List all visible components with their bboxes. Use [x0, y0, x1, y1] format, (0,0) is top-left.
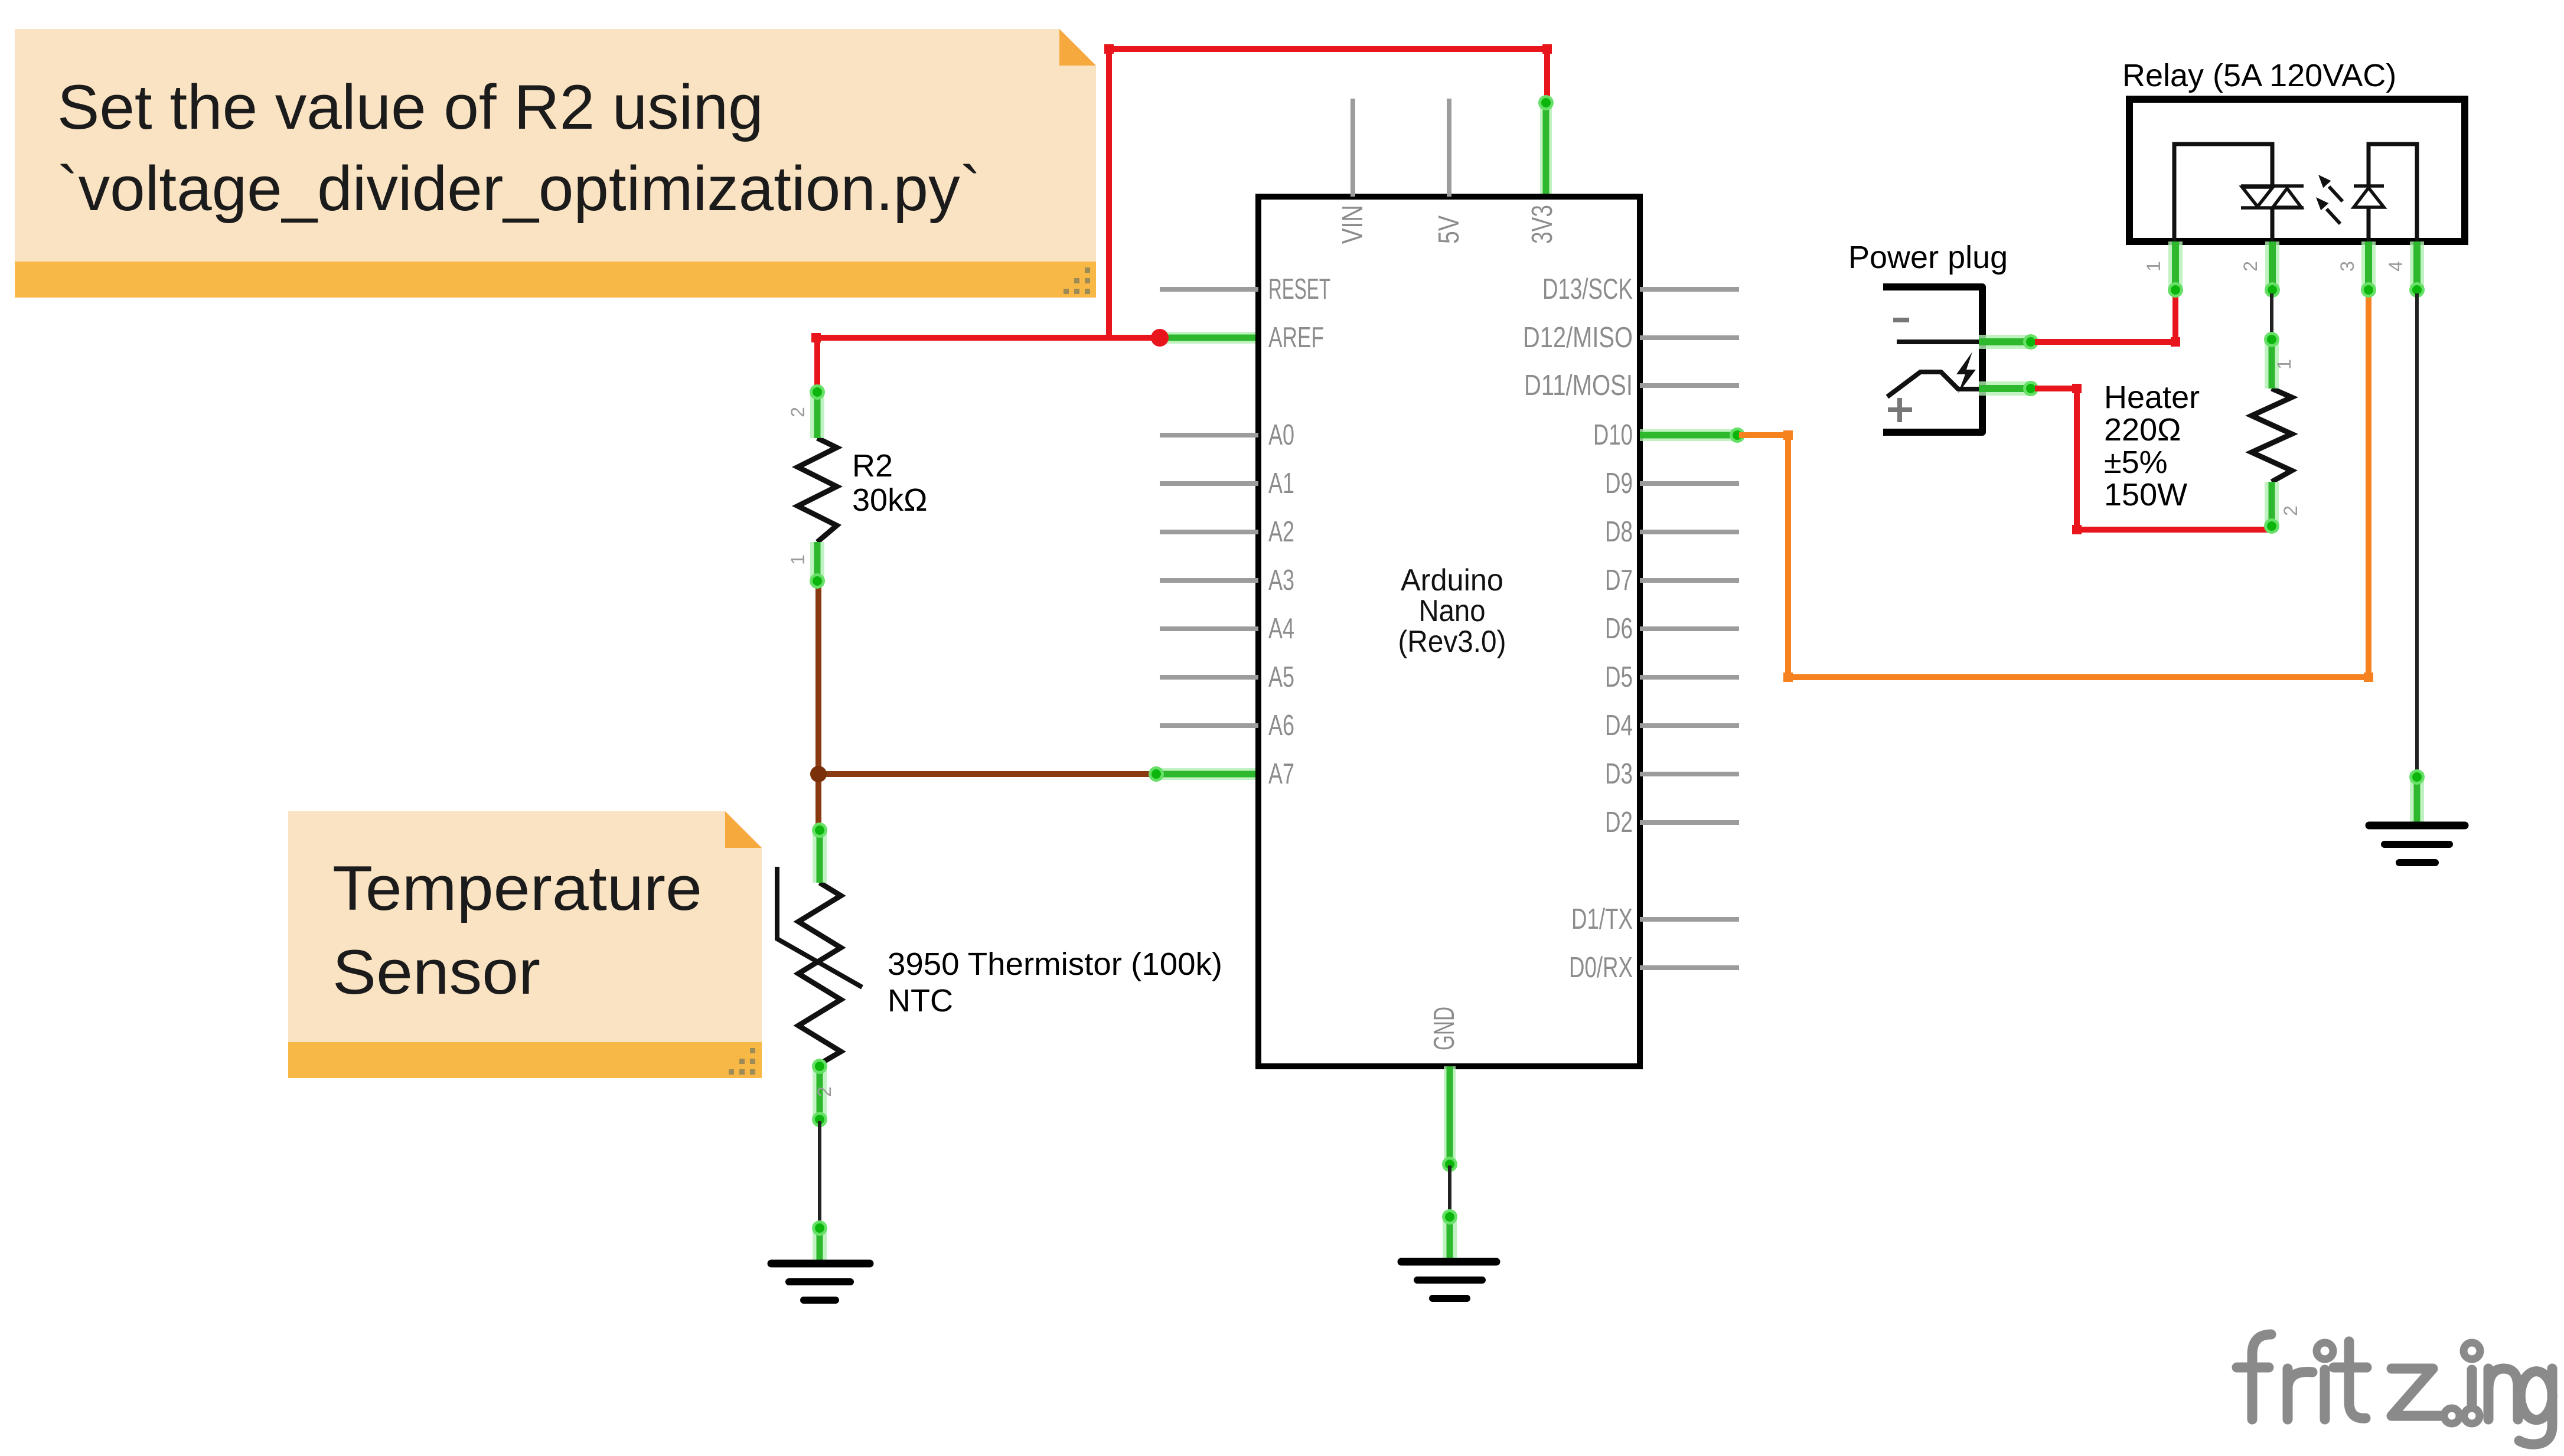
- fritzing logo: [2237, 1334, 2552, 1444]
- pin D4: [1605, 710, 1739, 742]
- pin D6: [1605, 613, 1739, 645]
- svg-text:A4: A4: [1268, 613, 1294, 645]
- ground symbol right: [2369, 825, 2465, 863]
- relay pin 3 leg: [2361, 241, 2376, 298]
- power plug minus pin line: [1897, 339, 1986, 344]
- power plug J1: [1883, 287, 1982, 432]
- svg-text:D7: D7: [1605, 564, 1633, 596]
- resistor R2 pin 1 leg: [810, 542, 825, 589]
- svg-text:`voltage_divider_optimization.: `voltage_divider_optimization.py`: [57, 153, 981, 224]
- pin D12/MISO: [1523, 322, 1739, 354]
- pin D2: [1605, 807, 1739, 838]
- pin A5: [1160, 661, 1294, 693]
- ground symbol left: [771, 1264, 870, 1300]
- pin D7: [1605, 564, 1739, 596]
- svg-text:D2: D2: [1605, 807, 1633, 838]
- ground symbol center: [1401, 1262, 1496, 1298]
- relay pin 1 leg: [2168, 241, 2183, 298]
- wire red AREF: [815, 335, 1160, 341]
- relay pin 4 leg: [2409, 241, 2425, 298]
- wire green plug minus leg: [1979, 334, 2038, 350]
- svg-text:D10: D10: [1593, 419, 1633, 451]
- svg-text:1: 1: [787, 554, 808, 565]
- wire GND to ground: [1448, 1166, 1451, 1215]
- pin A1: [1160, 468, 1294, 500]
- svg-text:VIN: VIN: [1337, 205, 1369, 244]
- pin D13/SCK: [1542, 273, 1739, 305]
- wire green AREF stub: [1160, 332, 1258, 344]
- thermistor mark line: [777, 867, 862, 987]
- wire green GND stub: [1442, 1066, 1457, 1172]
- svg-text:A7: A7: [1268, 758, 1294, 790]
- wire cap orange corner3: [2364, 672, 2373, 682]
- svg-text:R2: R2: [852, 448, 893, 484]
- svg-text:1: 1: [2143, 261, 2164, 272]
- pin GND bottom: [1428, 1007, 1460, 1050]
- relay K1 body: [2129, 99, 2465, 241]
- pin AREF: [1268, 322, 1324, 354]
- svg-text:D9: D9: [1605, 468, 1633, 500]
- pin A6: [1160, 710, 1294, 742]
- label heater value: [2104, 380, 2200, 512]
- ground lead right: [2409, 769, 2425, 825]
- label Arduino Nano: [1398, 563, 1506, 659]
- svg-text:5V: 5V: [1433, 216, 1465, 244]
- svg-text:Arduino: Arduino: [1401, 563, 1503, 598]
- svg-text:4: 4: [2385, 261, 2406, 272]
- wire cap orange corner1: [1783, 430, 1793, 440]
- svg-text:D0/RX: D0/RX: [1569, 952, 1633, 984]
- pin D3: [1605, 758, 1739, 790]
- wire relay pin4 to ground: [2415, 293, 2419, 772]
- pin 5V: [1433, 99, 1465, 244]
- wire red plug plus to heater pin2: [2035, 389, 2271, 530]
- wire green 3V3 stub: [1538, 95, 1554, 197]
- pin A3: [1160, 564, 1294, 596]
- svg-text:±5%: ±5%: [2104, 445, 2168, 480]
- svg-text:D11/MOSI: D11/MOSI: [1524, 370, 1633, 401]
- svg-text:A3: A3: [1268, 564, 1294, 596]
- svg-text:Sensor: Sensor: [332, 936, 540, 1007]
- svg-text:2: 2: [814, 1086, 835, 1097]
- svg-text:(Rev3.0): (Rev3.0): [1398, 625, 1506, 659]
- svg-text:220Ω: 220Ω: [2104, 412, 2181, 448]
- pin A7: [1268, 758, 1294, 790]
- heater pin 1 leg: [2264, 332, 2279, 389]
- wire green plug plus leg: [1979, 381, 2038, 396]
- svg-text:RESET: RESET: [1268, 273, 1330, 305]
- junction AREF red dot: [1151, 329, 1169, 347]
- thermistor pin 1 leg: [812, 822, 827, 883]
- wire cap red corner pin1: [2171, 337, 2180, 347]
- resistor R2 pin 2 leg: [810, 384, 825, 438]
- svg-text:D5: D5: [1605, 661, 1633, 693]
- relay pin 2 leg: [2265, 241, 2280, 298]
- thermistor pin 2 leg: [812, 1059, 827, 1127]
- relay opto arrow 2: [2316, 197, 2340, 224]
- wire cap orange corner2: [1783, 672, 1793, 682]
- pin D11/MOSI: [1524, 370, 1739, 401]
- pin D9: [1605, 468, 1739, 500]
- svg-text:3V3: 3V3: [1526, 205, 1558, 244]
- wire green D10 stub: [1640, 427, 1745, 443]
- svg-text:D3: D3: [1605, 758, 1633, 790]
- wire cap red corner plus1: [2072, 384, 2082, 393]
- svg-text:D12/MISO: D12/MISO: [1523, 322, 1633, 354]
- pin D0/RX: [1569, 952, 1739, 984]
- pin VIN: [1337, 99, 1369, 244]
- wire cap red top-right: [1542, 44, 1552, 54]
- svg-text:2: 2: [2240, 261, 2261, 272]
- wire red plug minus to relay pin1: [2035, 293, 2175, 342]
- svg-text:D13/SCK: D13/SCK: [1542, 273, 1633, 305]
- label thermistor value: [888, 946, 1222, 1018]
- relay output side box: [2174, 144, 2272, 241]
- svg-text:1: 1: [2273, 359, 2295, 370]
- svg-text:3950 Thermistor (100k): 3950 Thermistor (100k): [888, 946, 1222, 982]
- svg-text:D6: D6: [1605, 613, 1633, 645]
- svg-text:150W: 150W: [2104, 477, 2187, 512]
- relay LED diode symbol: [2354, 186, 2384, 207]
- pin A2: [1160, 516, 1294, 548]
- pin A0: [1160, 419, 1294, 451]
- svg-text:GND: GND: [1428, 1007, 1460, 1050]
- wire red to R2 pin2: [814, 338, 820, 391]
- svg-text:Relay (5A 120VAC): Relay (5A 120VAC): [2122, 58, 2396, 93]
- pin A4: [1160, 613, 1294, 645]
- svg-text:30kΩ: 30kΩ: [852, 482, 927, 518]
- relay opto arrow 1: [2318, 175, 2343, 201]
- pin RESET: [1160, 273, 1330, 305]
- power plug plus wave line: [1887, 372, 1979, 397]
- junction node A7 divider: [810, 766, 827, 782]
- pin D8: [1605, 516, 1739, 548]
- wire relay pin2 to heater: [2270, 293, 2273, 337]
- wire orange D10 to relay pin3: [1739, 293, 2369, 677]
- svg-text:Temperature: Temperature: [332, 853, 702, 923]
- heater R1 resistor: [2252, 389, 2292, 482]
- svg-text:NTC: NTC: [888, 983, 953, 1018]
- thermistor RT1: [798, 883, 841, 1064]
- relay triac symbol: [2241, 186, 2304, 208]
- power plug lightning bolt: [1956, 352, 1976, 393]
- svg-text:Nano: Nano: [1419, 594, 1486, 628]
- svg-text:Power plug: Power plug: [1848, 240, 2008, 275]
- Arduino Nano U1 body: [1258, 197, 1640, 1066]
- ground lead left: [812, 1220, 827, 1264]
- wire cap red AREF left end: [811, 333, 821, 342]
- wire cap red corner plus2: [2072, 525, 2082, 534]
- wire cap red top-left: [1104, 44, 1114, 54]
- pin D5: [1605, 661, 1739, 693]
- label plus: [1888, 398, 1912, 422]
- pin D1/TX: [1571, 903, 1739, 935]
- wire green A7 stub: [1149, 766, 1258, 782]
- note N2 "Temperature Sensor": [288, 811, 762, 1078]
- relay LED side box: [2369, 144, 2417, 241]
- wire red 3V3 top: [1109, 49, 1547, 338]
- svg-text:3: 3: [2337, 261, 2358, 272]
- heater pin 2 leg: [2264, 482, 2279, 534]
- svg-text:A5: A5: [1268, 661, 1294, 693]
- svg-text:Heater: Heater: [2104, 380, 2200, 415]
- svg-text:Set the value of R2 using: Set the value of R2 using: [57, 71, 764, 142]
- ground lead center: [1442, 1209, 1457, 1262]
- wire brown node to thermistor: [815, 774, 821, 829]
- svg-text:2: 2: [2280, 505, 2301, 516]
- wire brown R2 to A7 node: [818, 582, 1154, 774]
- note N1 "Set the value of R2": [15, 29, 1096, 298]
- svg-text:D4: D4: [1605, 710, 1633, 742]
- label minus: [1893, 318, 1909, 322]
- wire thermistor to ground: [818, 1121, 821, 1226]
- svg-text:A6: A6: [1268, 710, 1294, 742]
- pin 3V3: [1526, 205, 1558, 244]
- svg-text:D8: D8: [1605, 516, 1633, 548]
- svg-text:A2: A2: [1268, 516, 1294, 548]
- pin D10: [1593, 419, 1633, 451]
- svg-text:A0: A0: [1268, 419, 1294, 451]
- svg-text:2: 2: [787, 407, 808, 417]
- svg-text:D1/TX: D1/TX: [1571, 903, 1633, 935]
- resistor R2: [798, 438, 837, 542]
- svg-text:A1: A1: [1268, 468, 1294, 500]
- svg-text:AREF: AREF: [1268, 322, 1324, 354]
- label R2 value: [852, 448, 927, 518]
